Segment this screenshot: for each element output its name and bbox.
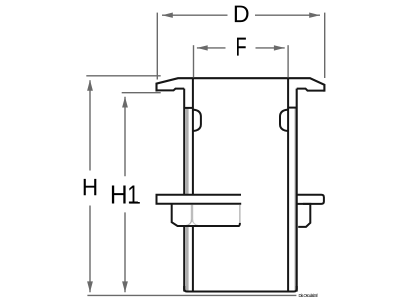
dimension D extension line left <box>156 13 158 80</box>
tube bore line left <box>192 78 194 291</box>
hex centerline tick <box>239 205 241 223</box>
H extension line top <box>86 75 160 77</box>
flange underside left (with sealing step) <box>157 89 185 91</box>
tube wall shading right <box>295 108 297 291</box>
bump right <box>280 110 288 131</box>
dimension D line <box>162 14 320 16</box>
flange head outline <box>157 78 325 90</box>
dimension F extension line right <box>287 45 289 77</box>
bottom extension line <box>87 294 296 296</box>
label F <box>237 38 246 56</box>
dimension D arrowheads <box>162 13 173 18</box>
bump left <box>193 110 201 131</box>
dimension D extension line right <box>324 13 326 78</box>
nut white cover left <box>158 196 241 203</box>
dimension H arrowheads <box>87 80 93 91</box>
dimension F arrowheads <box>197 45 208 50</box>
tube outer wall right <box>296 89 298 292</box>
dimension F line <box>197 47 285 49</box>
hex nut body left (section) <box>172 204 240 226</box>
hex nut body right <box>298 204 310 227</box>
flange underside right (with sealing step) <box>297 89 325 91</box>
H1 extension line top <box>122 92 161 94</box>
thread start line left <box>184 107 193 109</box>
bore mark in hex (gray) <box>191 205 193 222</box>
dimension H1 line <box>124 97 126 293</box>
locknut washer left (section) <box>157 195 242 204</box>
label H <box>84 179 97 195</box>
tube bore line right <box>287 78 289 291</box>
svg-text:Dis. Osculati Srl: Dis. Osculati Srl <box>299 293 318 298</box>
label D <box>235 6 249 23</box>
tube outer wall left <box>183 89 185 292</box>
dimension F extension line left <box>193 45 195 77</box>
label H1 <box>112 186 126 204</box>
tube wall shading left <box>186 108 189 194</box>
thread start line right <box>288 107 297 109</box>
dimension H line <box>89 80 91 292</box>
dimension H1 arrowheads <box>122 97 128 108</box>
locknut washer right <box>296 195 324 204</box>
tube bottom edge <box>184 286 297 292</box>
